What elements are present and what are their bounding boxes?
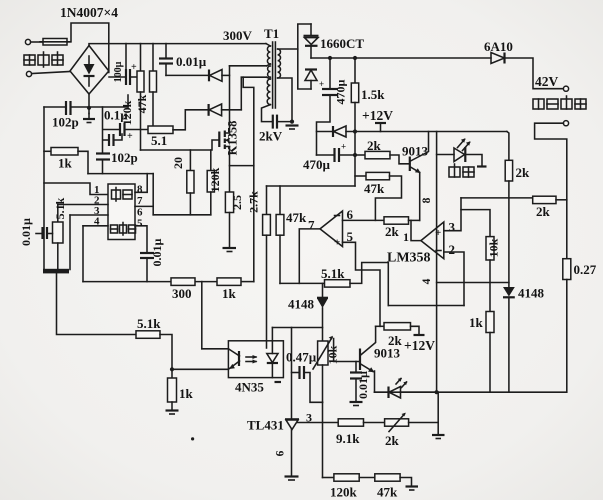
svg-text:2k: 2k bbox=[385, 433, 400, 448]
resistor 5.1k horizontal bbox=[136, 331, 160, 339]
svg-text:47k: 47k bbox=[377, 485, 398, 500]
svg-text:120k: 120k bbox=[208, 167, 222, 192]
resistor 47k bottom bbox=[375, 474, 400, 481]
label houmokuai bbox=[111, 223, 136, 236]
capacitor 102p second bbox=[96, 152, 110, 154]
resistor 5.1 bbox=[148, 126, 173, 134]
resistor 2k collector load bbox=[507, 132, 509, 161]
resistor 5.1k sense bbox=[325, 280, 351, 287]
wire bus 173 bbox=[88, 173, 153, 175]
svg-text:+: + bbox=[319, 79, 324, 89]
wire bbox=[32, 72, 70, 74]
potentiometer 10k bbox=[322, 341, 324, 345]
wire 4148 column bbox=[322, 283, 324, 297]
svg-text:2k: 2k bbox=[536, 204, 551, 219]
wire 327 link bbox=[272, 327, 322, 329]
svg-text:7: 7 bbox=[308, 218, 315, 233]
ground at 2k pot bbox=[437, 423, 439, 435]
wire bridge top to 300V rail bbox=[89, 44, 266, 46]
diode snubber 2 bbox=[208, 104, 210, 116]
capacitor 2kV bbox=[272, 115, 274, 129]
resistor 10k right bbox=[486, 237, 494, 260]
svg-text:T1: T1 bbox=[264, 26, 279, 41]
wire 5.1k to divider bbox=[350, 263, 388, 306]
svg-text:42V: 42V bbox=[535, 74, 559, 89]
svg-text:47k: 47k bbox=[364, 181, 385, 196]
wire 102p rail bbox=[44, 106, 65, 108]
wire left vertical bbox=[43, 107, 45, 270]
opto LED bbox=[271, 328, 273, 354]
svg-text:+12V: +12V bbox=[404, 338, 435, 353]
svg-text:0.01µ: 0.01µ bbox=[356, 371, 370, 399]
resistor 1k left bbox=[44, 150, 51, 152]
capacitor 0.01u top bbox=[165, 44, 167, 58]
svg-text:0.27: 0.27 bbox=[574, 262, 597, 277]
node bottom joint bar bbox=[43, 269, 69, 274]
svg-text:1k: 1k bbox=[222, 286, 237, 301]
wire aux top lead bbox=[241, 76, 266, 78]
node 470u-2k bbox=[353, 153, 357, 157]
wire riser left-mid bbox=[102, 107, 104, 153]
resistor 120k vertical second bbox=[210, 150, 212, 171]
svg-text:+12V: +12V bbox=[362, 108, 393, 123]
svg-text:1k: 1k bbox=[469, 315, 484, 330]
opto transistor bbox=[238, 351, 240, 366]
wire pin3 net bbox=[444, 198, 461, 231]
wire fuse to bridge right vertex bbox=[67, 23, 109, 73]
wire rail into primary bbox=[266, 44, 270, 46]
resistor 1.5k bbox=[354, 58, 356, 83]
svg-text:7: 7 bbox=[137, 195, 143, 207]
wire pin7 riser bbox=[299, 229, 320, 284]
resistor 1k right bbox=[486, 312, 494, 333]
diode 1660CT upper bbox=[310, 24, 312, 36]
opto arrows bbox=[246, 356, 256, 358]
svg-text:2.7k: 2.7k bbox=[247, 191, 261, 213]
wire opampB out bbox=[411, 220, 421, 240]
svg-text:2k: 2k bbox=[385, 224, 400, 239]
battery lower terminal bbox=[563, 121, 568, 126]
ground bbox=[223, 247, 237, 249]
svg-text:1: 1 bbox=[403, 230, 409, 244]
wire 1k to bus bbox=[78, 151, 88, 173]
AC input terminal upper bbox=[25, 39, 30, 44]
bridge rectifier bbox=[70, 46, 109, 95]
resistor 2.5 bbox=[225, 192, 233, 213]
node 2kV junction bbox=[290, 120, 294, 124]
svg-text:+: + bbox=[341, 142, 346, 152]
svg-text:0.01µ: 0.01µ bbox=[150, 238, 164, 266]
wire bridge bottom to ground node bbox=[88, 94, 90, 114]
speck bbox=[191, 437, 194, 440]
wire bus 214 bbox=[153, 214, 211, 216]
wire node 282 bbox=[437, 282, 509, 284]
wire pin3 to 10k bbox=[461, 210, 490, 237]
wire 5.1 to snubber diode row bbox=[173, 110, 209, 130]
ground bottom bbox=[406, 485, 419, 487]
capacitor 102p first bbox=[65, 101, 67, 115]
resistor 2k base bbox=[355, 154, 365, 156]
resistor 2k emitter top bbox=[376, 325, 384, 327]
wire opto collector riser bbox=[201, 282, 203, 349]
label charging bbox=[449, 164, 474, 177]
wire aux bottom to 2kV bbox=[262, 105, 273, 122]
wire pin3 drop bbox=[69, 215, 71, 270]
resistor 47k mid bbox=[355, 175, 366, 177]
wire down to 5.1k row bbox=[57, 273, 137, 334]
svg-text:2k: 2k bbox=[516, 165, 531, 180]
wire pin2 net bbox=[444, 252, 464, 306]
svg-text:4: 4 bbox=[421, 278, 433, 284]
wire to 42V terminal bbox=[505, 58, 564, 89]
svg-text:+: + bbox=[127, 131, 133, 142]
svg-text:9013: 9013 bbox=[402, 144, 429, 159]
svg-text:0.01µ: 0.01µ bbox=[176, 54, 207, 69]
svg-text:4N35: 4N35 bbox=[235, 380, 264, 395]
wire rail 281 bbox=[83, 281, 171, 283]
wire TL431 column bbox=[291, 328, 293, 419]
resistor 2k horizontal right bbox=[533, 196, 556, 203]
capacitor unlabeled small bbox=[103, 139, 109, 141]
svg-text:4148: 4148 bbox=[288, 297, 315, 312]
resistor 0.27 bbox=[563, 259, 571, 280]
ground bbox=[83, 118, 95, 120]
wire pin1 path bbox=[44, 183, 108, 195]
svg-text:K1358: K1358 bbox=[226, 121, 240, 156]
svg-text:300V: 300V bbox=[223, 28, 253, 43]
svg-text:TL431: TL431 bbox=[247, 418, 284, 433]
svg-text:6: 6 bbox=[275, 450, 287, 456]
label battery bbox=[533, 96, 586, 109]
LED indicator bottom bbox=[375, 391, 389, 393]
svg-text:470µ: 470µ bbox=[303, 157, 331, 172]
capacitor 0.01u module bbox=[140, 252, 154, 254]
diode 4148 left bbox=[317, 297, 328, 299]
svg-text:5.1k: 5.1k bbox=[137, 316, 161, 331]
svg-text:1N4007×4: 1N4007×4 bbox=[60, 5, 118, 20]
svg-text:2.5: 2.5 bbox=[230, 195, 244, 210]
wire bottom divider bbox=[323, 477, 334, 479]
wire diode2 riser to aux top bbox=[240, 77, 242, 110]
wire source to 2.5 bbox=[229, 147, 231, 193]
wire ref rail bbox=[297, 422, 338, 424]
diode on 12V rail bbox=[332, 126, 334, 137]
node 1.5k tap bbox=[353, 56, 357, 60]
wire battery sense bbox=[535, 123, 567, 259]
resistor 2k feedback bbox=[384, 217, 409, 224]
svg-text:2kV: 2kV bbox=[259, 129, 283, 144]
svg-text:5.1k: 5.1k bbox=[321, 266, 345, 281]
ground TL431 bbox=[285, 475, 299, 477]
svg-text:8: 8 bbox=[421, 197, 433, 203]
resistor 120k bottom bbox=[334, 474, 359, 481]
svg-text:3: 3 bbox=[449, 220, 456, 235]
wire pot wiper to base bbox=[334, 339, 360, 362]
opto coupler 4N35 bbox=[228, 341, 283, 378]
wire drain riser bbox=[229, 66, 231, 133]
wire pin5 drop with cap bbox=[135, 226, 147, 253]
svg-text:1k: 1k bbox=[58, 156, 73, 171]
svg-text:8: 8 bbox=[137, 184, 143, 196]
node 470u tap bbox=[328, 56, 332, 60]
capacitor 470u second bbox=[317, 154, 335, 156]
AC input terminal lower bbox=[26, 71, 31, 76]
wire gate line bbox=[141, 140, 219, 150]
resistor 1k bottom-left vertical bbox=[171, 369, 173, 378]
node ground rail joins bbox=[435, 390, 439, 394]
wire to 4N35 node bbox=[160, 335, 172, 370]
node main ground junction bbox=[87, 106, 91, 110]
svg-text:120k: 120k bbox=[330, 485, 358, 500]
ground bbox=[166, 409, 179, 411]
svg-text:10k: 10k bbox=[487, 238, 501, 257]
op-amp B bbox=[421, 222, 444, 259]
LED arrows bbox=[458, 140, 465, 148]
wire aux top to long vertical bbox=[243, 77, 254, 281]
svg-text:2k: 2k bbox=[388, 333, 403, 348]
svg-text:9.1k: 9.1k bbox=[336, 431, 360, 446]
fuse F1 bbox=[43, 39, 67, 46]
transistor K1358 mosfet bbox=[218, 132, 220, 148]
terminal +12V bbox=[380, 124, 382, 132]
resistor 2.7k bbox=[266, 186, 268, 215]
svg-text:300: 300 bbox=[172, 286, 192, 301]
capacitor 0.01u left bbox=[36, 233, 43, 235]
resistor 47k vertical first bbox=[152, 44, 154, 71]
svg-text:6A10: 6A10 bbox=[484, 39, 513, 54]
diode 4148 right bbox=[503, 287, 515, 297]
svg-text:1.5k: 1.5k bbox=[361, 87, 385, 102]
wire primary bottom bbox=[230, 65, 267, 67]
potentiometer 2k bbox=[385, 419, 409, 426]
capacitor 0.01u base bbox=[355, 362, 357, 373]
wire secondary bottom bbox=[278, 78, 292, 122]
svg-text:+: + bbox=[334, 237, 340, 249]
svg-text:4148: 4148 bbox=[518, 286, 545, 301]
svg-text:102p: 102p bbox=[52, 115, 79, 130]
capacitor 100u bbox=[109, 76, 126, 78]
op-amp A bbox=[320, 211, 343, 247]
svg-text:2k: 2k bbox=[367, 138, 382, 153]
svg-text:47k: 47k bbox=[135, 94, 149, 113]
svg-text:2: 2 bbox=[449, 242, 456, 257]
wire bus 186 bbox=[267, 185, 356, 187]
svg-text:5: 5 bbox=[137, 218, 143, 230]
wire secondary top bbox=[278, 48, 298, 50]
capacitor 470u first bbox=[329, 58, 331, 89]
LED charging bbox=[437, 154, 454, 156]
resistor 1k mid bbox=[217, 278, 241, 286]
svg-text:+: + bbox=[131, 62, 137, 73]
resistor 300 bbox=[171, 278, 195, 286]
wire pin5 path bbox=[343, 242, 381, 326]
diode snubber 1 bbox=[166, 74, 209, 76]
rectifier 1660CT frame bbox=[298, 24, 311, 89]
resistor 47k third bbox=[279, 186, 281, 215]
wire source tap to aux vertical bbox=[230, 165, 254, 167]
wire bbox=[31, 41, 43, 43]
wire 355 vertical bbox=[354, 132, 356, 187]
resistor 9.1k bbox=[338, 419, 363, 426]
wire supply vertical 436 bbox=[436, 132, 438, 393]
svg-text:20: 20 bbox=[171, 157, 185, 169]
svg-text:1k: 1k bbox=[179, 386, 194, 401]
wire pin6 to 2k bbox=[343, 219, 385, 221]
wire pot bottom column bbox=[322, 402, 324, 477]
svg-text:47k: 47k bbox=[286, 210, 307, 225]
svg-text:1660CT: 1660CT bbox=[320, 36, 364, 51]
svg-text:0.01µ: 0.01µ bbox=[19, 218, 33, 246]
wire +12V rail bbox=[317, 131, 334, 133]
label dianyuan bbox=[112, 188, 133, 202]
power module U2 bbox=[108, 184, 135, 240]
svg-text:470µ: 470µ bbox=[334, 79, 348, 104]
diode 1660CT lower bbox=[305, 68, 317, 70]
wire stub under 100u bbox=[127, 95, 129, 107]
svg-text:100µ: 100µ bbox=[113, 61, 124, 82]
svg-text:0.47µ: 0.47µ bbox=[286, 350, 317, 365]
resistor 5.1k vertical left bbox=[57, 205, 59, 223]
svg-text:102p: 102p bbox=[111, 150, 138, 165]
node opto emitter bbox=[170, 367, 174, 371]
wire output rail 58 bbox=[311, 57, 491, 59]
resistor 120k vertical bbox=[140, 44, 142, 71]
svg-text:5.1k: 5.1k bbox=[53, 197, 67, 219]
wire pin4 riser to 300 rail bbox=[82, 226, 84, 282]
svg-text:LM358: LM358 bbox=[387, 251, 431, 266]
node 12V-1.5k bbox=[353, 129, 357, 133]
svg-text:5.1: 5.1 bbox=[151, 133, 167, 148]
svg-text:0.1µ: 0.1µ bbox=[104, 108, 128, 123]
label 接市电 bbox=[24, 52, 63, 67]
ground bbox=[286, 124, 299, 126]
wire node to opto bbox=[172, 368, 228, 370]
wire net 283 bbox=[280, 282, 325, 284]
